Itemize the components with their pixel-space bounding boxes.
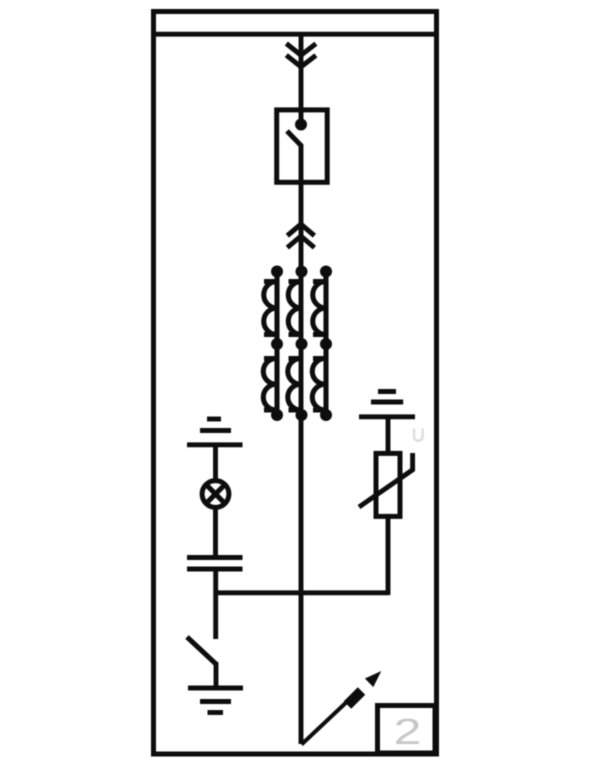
wire main vertical conductor — [299, 144, 304, 744]
wire blade to ground — [214, 662, 219, 688]
capacitor (voltage divider) — [187, 558, 243, 570]
withdrawable truck arrowhead — [365, 671, 381, 687]
plug-in contact (incoming withdrawable), double chevron down — [286, 44, 316, 67]
ground (left branch) — [188, 688, 243, 713]
busbar compartment divider line — [151, 32, 439, 37]
wire incoming drop from busbar — [299, 34, 304, 122]
earth terminal above surge arrester (right branch) — [359, 392, 415, 417]
surge arrester (varistor) body — [376, 453, 400, 516]
label U (grey) — [414, 429, 423, 441]
label 2 (grey) — [394, 711, 422, 752]
wire from lamp to capacitor — [213, 506, 218, 556]
wire horizontal tie (left branch - main - right branch) — [214, 590, 390, 595]
plug-in contact (outgoing withdrawable), double chevron up — [287, 224, 314, 247]
current transformer CT1 (left column) — [263, 266, 283, 422]
panel number box — [378, 706, 436, 754]
wire from capacitor down to earthing switch — [213, 570, 218, 639]
varistor diagonal stroke — [359, 453, 413, 507]
wire from earth to lamp — [213, 445, 218, 482]
current transformer CT2 (center column) — [288, 266, 308, 422]
svg-text:2: 2 — [394, 711, 422, 752]
current transformer CT3 (right column) — [312, 266, 332, 422]
earthing switch blade — [187, 637, 217, 665]
wire from earth to arrester — [386, 417, 391, 455]
switch fixed contact dot — [295, 119, 307, 131]
withdrawable truck arrow thick segment — [348, 691, 362, 705]
earth terminal above voltage indicator (left branch) — [187, 419, 243, 445]
switch blade (open) — [287, 131, 302, 146]
withdrawable truck arrow shaft — [302, 697, 353, 745]
cubicle enclosure outline — [154, 12, 437, 755]
switch-disconnector enclosure box — [277, 110, 328, 182]
wire from arrester to horizontal tie — [386, 516, 391, 595]
indicator lamp (circle with X) — [202, 481, 229, 508]
